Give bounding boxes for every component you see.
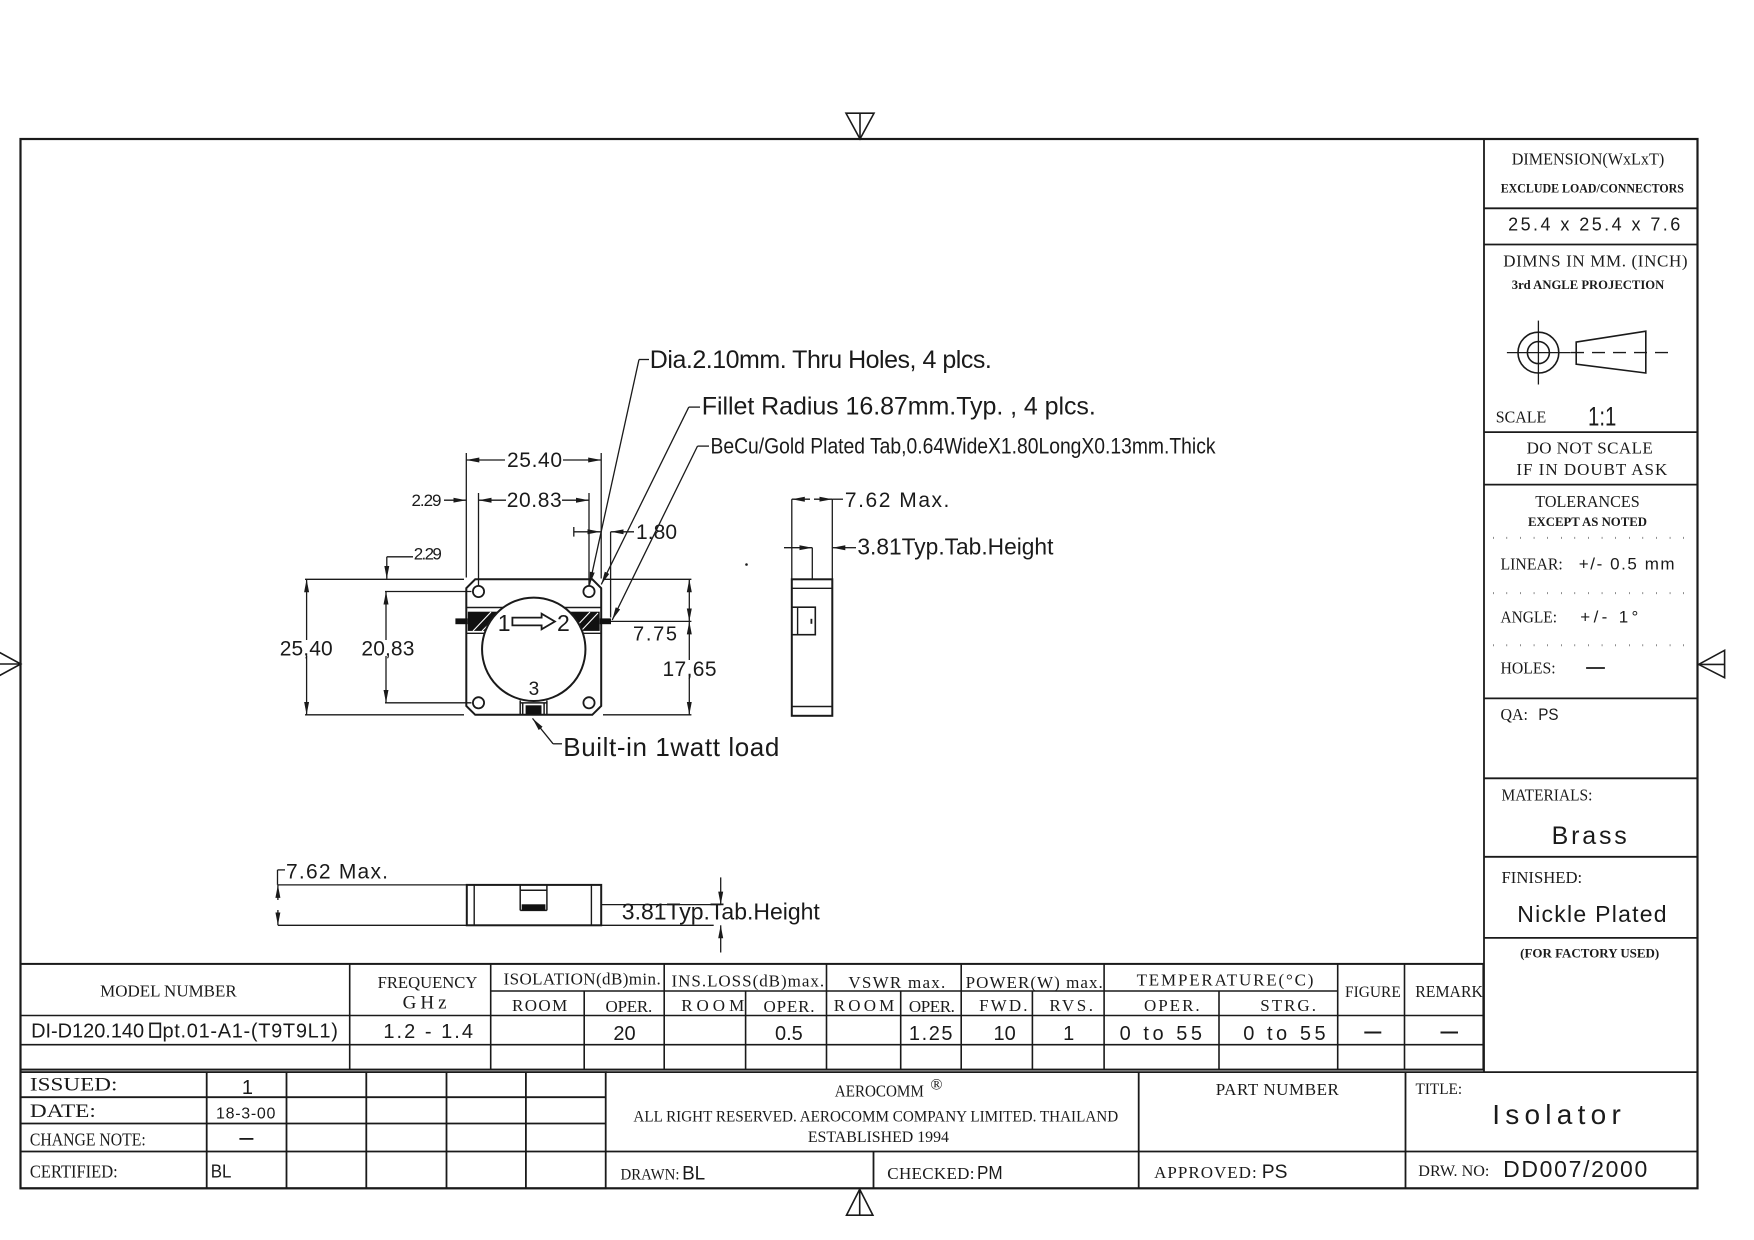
svg-text:1.2 - 1.4: 1.2 - 1.4 — [383, 1021, 473, 1043]
svg-text:ROOM: ROOM — [681, 996, 744, 1015]
bottom view body — [467, 885, 601, 925]
svg-text:FWD.: FWD. — [979, 996, 1027, 1015]
svg-text:25.40: 25.40 — [507, 449, 562, 472]
leader for Fillet note — [601, 407, 700, 584]
svg-text:DRW. NO:: DRW. NO: — [1418, 1163, 1489, 1180]
top registration triangle — [846, 113, 874, 139]
side view BeCu tab — [792, 607, 815, 635]
svg-text:BL: BL — [682, 1164, 705, 1185]
dimension 20.83 top — [479, 493, 590, 586]
stray dot — [745, 563, 748, 566]
svg-text:2.29: 2.29 — [414, 545, 442, 564]
hatch slashes on tabs — [473, 612, 598, 631]
svg-text:SCALE: SCALE — [1496, 407, 1546, 426]
svg-text:ISOLATION(dB)min.: ISOLATION(dB)min. — [504, 970, 661, 989]
svg-text:ESTABLISHED 1994: ESTABLISHED 1994 — [808, 1129, 949, 1146]
bottom view load tab — [520, 885, 547, 911]
svg-text:pt.01-A1-(T9T9L1): pt.01-A1-(T9T9L1) — [163, 1021, 338, 1043]
svg-text:ISSUED:: ISSUED: — [30, 1075, 118, 1096]
svg-text:QA:: QA: — [1501, 705, 1529, 724]
svg-text:IF IN DOUBT ASK: IF IN DOUBT ASK — [1516, 460, 1668, 479]
svg-text:3: 3 — [529, 679, 540, 700]
svg-text:GHz: GHz — [403, 993, 447, 1014]
svg-text:DD007/2000: DD007/2000 — [1503, 1156, 1647, 1182]
svg-text:CHECKED:: CHECKED: — [887, 1164, 974, 1183]
svg-text:18-3-00: 18-3-00 — [216, 1106, 275, 1123]
leader for BeCu note — [612, 446, 709, 620]
projection symbol — [1507, 321, 1674, 385]
center circle — [482, 598, 585, 701]
svg-text:25.4 x 25.4 x 7.6: 25.4 x 25.4 x 7.6 — [1508, 214, 1680, 234]
svg-text:OPER.: OPER. — [764, 997, 815, 1016]
svg-text:PS: PS — [1538, 705, 1558, 724]
corner hole bottom-right — [583, 697, 594, 708]
svg-text:PS: PS — [1262, 1162, 1288, 1183]
svg-text:FREQUENCY: FREQUENCY — [378, 973, 478, 992]
svg-text:ROOM: ROOM — [834, 996, 895, 1015]
svg-text:DI-D120.140: DI-D120.140 — [31, 1021, 144, 1043]
svg-text:7.75: 7.75 — [633, 624, 677, 646]
top view tab channel lines — [466, 608, 601, 634]
svg-text:20,83: 20,83 — [361, 637, 414, 660]
svg-text:2: 2 — [557, 610, 570, 636]
svg-text:1.80: 1.80 — [636, 521, 677, 544]
svg-text:Brass: Brass — [1552, 822, 1627, 850]
right panel dotted separators — [1493, 538, 1690, 645]
dimension 7.62 Max bottom view — [278, 870, 467, 925]
svg-text:20: 20 — [613, 1023, 635, 1045]
dimension 25.40 top — [466, 453, 601, 579]
svg-text:DRAWN:: DRAWN: — [621, 1167, 680, 1184]
bottom load tab on top view — [520, 701, 547, 715]
svg-text:3rd ANGLE PROJECTION: 3rd ANGLE PROJECTION — [1512, 277, 1665, 292]
side view body — [792, 579, 833, 716]
svg-text:MATERIALS:: MATERIALS: — [1502, 786, 1593, 805]
left registration triangle — [0, 651, 21, 678]
svg-text:1: 1 — [1063, 1023, 1074, 1045]
svg-text:Fillet Radius 16.87mm.Typ. , 4: Fillet Radius 16.87mm.Typ. , 4 plcs. — [702, 393, 1096, 421]
corner hole bottom-left — [473, 697, 484, 708]
svg-text:®: ® — [930, 1077, 942, 1094]
svg-text:Nickle Plated: Nickle Plated — [1517, 901, 1666, 927]
svg-text:Dia.2.10mm. Thru Holes, 4 plcs: Dia.2.10mm. Thru Holes, 4 plcs. — [650, 346, 992, 374]
svg-text:Isolator: Isolator — [1492, 1099, 1621, 1130]
svg-text:PART NUMBER: PART NUMBER — [1216, 1080, 1340, 1099]
right ferrite tab (black) — [567, 612, 600, 631]
left ferrite tab (black) — [468, 612, 501, 631]
svg-text:3.81Typ.Tab.Height: 3.81Typ.Tab.Height — [857, 534, 1054, 560]
issued table grid — [21, 1072, 1698, 1188]
svg-text:EXCLUDE LOAD/CONNECTORS: EXCLUDE LOAD/CONNECTORS — [1501, 180, 1684, 195]
right side extension lines — [603, 579, 691, 715]
right registration triangle — [1699, 650, 1725, 677]
dimension 7.62 Max side view — [792, 499, 843, 579]
svg-text:+/- 0.5 mm: +/- 0.5 mm — [1579, 554, 1675, 573]
top view body outline — [466, 579, 601, 715]
dimension 17.65 — [688, 621, 690, 714]
dimension 3.81 Typ Tab Height bottom view — [601, 877, 721, 952]
bottom registration triangle — [847, 1189, 873, 1215]
svg-text:REMARK: REMARK — [1415, 982, 1483, 1001]
svg-text:LINEAR:: LINEAR: — [1501, 554, 1563, 573]
svg-text:OPER.: OPER. — [1144, 996, 1200, 1015]
svg-text:1: 1 — [498, 610, 511, 636]
svg-text:TOLERANCES: TOLERANCES — [1535, 492, 1639, 511]
svg-text:Built-in 1watt load: Built-in 1watt load — [563, 732, 779, 762]
svg-text:ROOM: ROOM — [512, 996, 567, 1015]
dimension 25,40 left vertical — [305, 579, 464, 715]
spec table horizontal lines — [21, 991, 1484, 1045]
svg-text:INS.LOSS(dB)max.: INS.LOSS(dB)max. — [672, 972, 825, 991]
svg-text:BL: BL — [211, 1161, 232, 1181]
svg-text:VSWR max.: VSWR max. — [848, 973, 945, 992]
dimension 20,83 left vertical — [385, 592, 472, 703]
svg-text:DIMNS IN MM. (INCH): DIMNS IN MM. (INCH) — [1503, 251, 1687, 270]
svg-text:POWER(W) max.: POWER(W) max. — [966, 973, 1103, 992]
right BeCu stub — [600, 618, 611, 624]
right panel dividers — [1484, 139, 1698, 1072]
svg-text:BeCu/Gold Plated Tab,0.64WideX: BeCu/Gold Plated Tab,0.64WideX1.80LongX0… — [711, 434, 1217, 459]
svg-text:DIMENSION(WxLxT): DIMENSION(WxLxT) — [1512, 150, 1665, 169]
left BeCu stub — [455, 618, 467, 624]
svg-text:PM: PM — [977, 1163, 1003, 1183]
svg-text:OPER.: OPER. — [606, 997, 653, 1016]
svg-text:APPROVED:: APPROVED: — [1154, 1163, 1257, 1182]
dimension 3.81 Typ Tab Height side view — [784, 548, 856, 579]
svg-text:1:1: 1:1 — [1588, 401, 1616, 431]
svg-text:20.83: 20.83 — [507, 489, 562, 512]
svg-text:7.62 Max.: 7.62 Max. — [845, 489, 950, 512]
spec table outer — [21, 964, 1484, 1070]
svg-text:EXCEPT AS NOTED: EXCEPT AS NOTED — [1528, 514, 1647, 529]
svg-text:1.25: 1.25 — [909, 1023, 953, 1045]
corner hole top-right — [583, 586, 594, 597]
svg-text:DO NOT SCALE: DO NOT SCALE — [1527, 438, 1653, 457]
svg-text:17,65: 17,65 — [663, 658, 717, 681]
svg-text:(FOR FACTORY USED): (FOR FACTORY USED) — [1520, 945, 1659, 960]
svg-text:AEROCOMM: AEROCOMM — [835, 1081, 924, 1100]
dimension 7.75 — [688, 579, 690, 621]
svg-text:FIGURE: FIGURE — [1345, 984, 1401, 1001]
corner hole top-left — [473, 586, 484, 597]
direction block arrow 1 to 2 — [512, 614, 555, 630]
svg-text:ALL RIGHT RESERVED. AEROCOMM C: ALL RIGHT RESERVED. AEROCOMM COMPANY LIM… — [633, 1109, 1118, 1126]
svg-text:TITLE:: TITLE: — [1416, 1081, 1463, 1098]
svg-text:7.62 Max.: 7.62 Max. — [286, 861, 388, 884]
title block company cell — [606, 1072, 1698, 1188]
svg-text:1: 1 — [242, 1077, 253, 1099]
svg-text:MODEL NUMBER: MODEL NUMBER — [100, 982, 237, 1001]
svg-text:DATE:: DATE: — [30, 1101, 96, 1122]
svg-text:10: 10 — [993, 1023, 1015, 1045]
svg-text:CERTIFIED:: CERTIFIED: — [30, 1162, 118, 1182]
spec table vertical lines — [350, 964, 1405, 1070]
svg-text:HOLES:: HOLES: — [1501, 659, 1556, 678]
leader for Built-in note — [533, 718, 563, 743]
leader for Dia note — [590, 360, 650, 585]
svg-text:FINISHED:: FINISHED: — [1502, 868, 1583, 887]
svg-text:0.5: 0.5 — [775, 1023, 803, 1045]
svg-text:OPER.: OPER. — [909, 997, 955, 1016]
svg-text:2.29: 2.29 — [412, 491, 442, 510]
svg-text:ANGLE:: ANGLE: — [1501, 607, 1558, 626]
svg-text:25,40: 25,40 — [280, 637, 333, 660]
svg-text:STRG.: STRG. — [1260, 996, 1316, 1015]
dimension 1.80 — [574, 527, 634, 618]
svg-text:CHANGE NOTE:: CHANGE NOTE: — [30, 1130, 146, 1150]
svg-text:3.81Typ.Tab.Height: 3.81Typ.Tab.Height — [622, 899, 821, 925]
